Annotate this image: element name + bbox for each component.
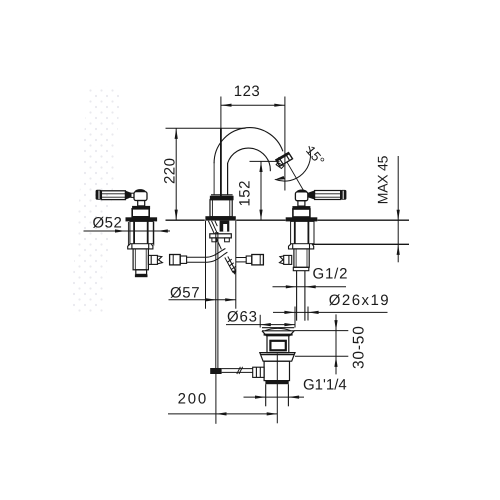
spout upper body bbox=[210, 200, 232, 217]
svg-text:Ø63: Ø63 bbox=[227, 309, 258, 326]
dim O52 bbox=[84, 229, 171, 232]
svg-text:152: 152 bbox=[237, 180, 254, 206]
right handle side connector bbox=[280, 255, 292, 264]
spout cap black bar bbox=[210, 196, 233, 199]
dim G1 1/4 bbox=[244, 396, 305, 399]
spout gooseneck outer arc bbox=[214, 128, 283, 164]
drain body bbox=[264, 361, 289, 380]
right handle grip end cap bbox=[341, 190, 347, 200]
pop-up rod bbox=[216, 232, 218, 368]
svg-text:220: 220 bbox=[161, 158, 178, 184]
svg-text:Ø26x19: Ø26x19 bbox=[329, 292, 390, 309]
drain bottom tube bbox=[266, 384, 289, 406]
dim O57 bbox=[169, 298, 236, 301]
spout base flange black bbox=[205, 216, 235, 220]
right handle skirt bbox=[289, 244, 314, 249]
dim 30-50 bbox=[294, 314, 348, 374]
spout cap line bbox=[211, 194, 233, 196]
nut tab left bbox=[212, 238, 217, 242]
dim 123 bbox=[221, 97, 285, 191]
drain center line bbox=[276, 354, 278, 424]
right handle cap bar black bbox=[292, 206, 310, 209]
15 degree tilted axis line bbox=[287, 162, 304, 191]
left handle cap bar black bbox=[132, 206, 150, 209]
svg-text:123: 123 bbox=[234, 83, 260, 100]
dim 200 bbox=[168, 412, 277, 415]
mounting nut bar bbox=[210, 234, 232, 238]
dim G1/2 bbox=[273, 285, 347, 288]
left handle grip bbox=[101, 191, 125, 200]
spout riser left edge bbox=[213, 162, 215, 195]
right handle stem bbox=[298, 201, 305, 206]
left handle tailpiece bbox=[136, 270, 147, 275]
left handle tail black bar bbox=[135, 274, 148, 277]
drain collar bbox=[260, 353, 295, 362]
svg-text:Ø52: Ø52 bbox=[93, 215, 123, 232]
dim 220 bbox=[166, 128, 246, 220]
right handle pivot dome cap bbox=[296, 190, 307, 192]
spout shank black valve bbox=[220, 221, 230, 232]
left handle pivot dome cap bbox=[135, 189, 146, 191]
left handle flange black bbox=[126, 217, 158, 221]
right handle upper body bbox=[293, 209, 310, 217]
123 extension line through spout bbox=[220, 128, 222, 196]
svg-text:30-50: 30-50 bbox=[351, 325, 368, 369]
drain flange bbox=[262, 328, 294, 336]
right handle grip bbox=[315, 191, 341, 200]
nut tab right bbox=[225, 238, 230, 242]
right handle collar bbox=[293, 267, 309, 270]
spout shank extension lines (O57) bbox=[205, 221, 207, 309]
right hose horizontal bbox=[236, 258, 246, 262]
right hose collar bbox=[246, 256, 252, 263]
svg-text:200: 200 bbox=[178, 391, 208, 408]
svg-text:G1/2: G1/2 bbox=[313, 266, 349, 283]
drain black band bbox=[265, 381, 288, 385]
drain neck bbox=[267, 336, 289, 353]
left handle upper body bbox=[132, 209, 149, 217]
left handle taper black bbox=[125, 191, 131, 200]
left hose collar bbox=[180, 256, 186, 263]
deck line bbox=[166, 219, 410, 221]
left handle side connector bbox=[148, 255, 162, 264]
svg-text:G1'1/4: G1'1/4 bbox=[303, 377, 347, 394]
left hose nut bbox=[170, 255, 181, 265]
right hose nut bbox=[252, 255, 264, 265]
spout outlet nozzle bbox=[276, 153, 293, 169]
linkage junction bbox=[210, 368, 221, 374]
left handle grip end cap bbox=[96, 190, 102, 200]
right handle pivot bbox=[295, 192, 307, 201]
svg-text:MAX 45: MAX 45 bbox=[375, 155, 391, 204]
left handle pivot bbox=[134, 192, 147, 201]
dim MAX45 bbox=[397, 156, 400, 262]
left handle lower body bbox=[133, 249, 148, 270]
right handle lower body bbox=[294, 249, 309, 267]
left hose from shank bbox=[187, 249, 228, 263]
left handle neck bbox=[131, 193, 134, 197]
left handle skirt bbox=[128, 244, 153, 249]
drain left fitting bbox=[253, 367, 264, 377]
spout riser right edge bbox=[227, 163, 229, 195]
dim 152 bbox=[250, 161, 280, 220]
right handle body bbox=[291, 221, 314, 243]
left handle stem bbox=[138, 201, 145, 206]
left handle ext stubs bbox=[127, 222, 129, 246]
watermark dot band bbox=[70, 86, 121, 315]
right handle tail tube bbox=[297, 271, 305, 321]
drain overflow window bbox=[270, 341, 285, 351]
15 degree arc bbox=[274, 146, 311, 181]
counter bottom line bbox=[313, 243, 410, 245]
spout gooseneck inner arc bbox=[228, 148, 271, 171]
linkage horizontal rod bbox=[222, 367, 253, 374]
right handle flange black bbox=[286, 217, 318, 221]
rod extension line for 200 bbox=[215, 374, 217, 424]
svg-text:Ø57: Ø57 bbox=[170, 285, 200, 302]
left handle body bbox=[130, 221, 153, 243]
dim O26x19 bbox=[273, 307, 388, 328]
dim O63 bbox=[226, 315, 295, 328]
shank hatch diagonals bbox=[208, 221, 221, 250]
right hose diagonal with break ticks bbox=[225, 257, 236, 275]
right handle taper black bbox=[308, 190, 315, 199]
